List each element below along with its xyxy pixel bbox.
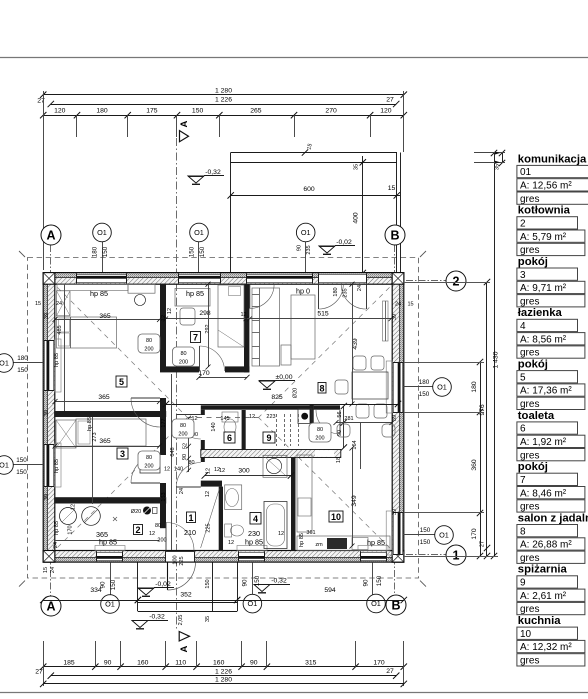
svg-text:7: 7 — [520, 475, 526, 486]
svg-text:9: 9 — [520, 578, 526, 589]
exterior wall top — [43, 273, 404, 278]
room2 gas pipe — [143, 507, 151, 515]
svg-text:O1: O1 — [97, 228, 107, 237]
right window sills — [386, 361, 392, 413]
lazienka sink — [225, 485, 242, 510]
svg-text:salon z jadalnią: salon z jadalnią — [518, 512, 588, 524]
svg-text:hp 85: hp 85 — [299, 533, 305, 547]
grid line A vertical — [50, 245, 52, 596]
svg-text:140: 140 — [174, 467, 183, 473]
salon armchairs — [337, 424, 350, 437]
O1 bottom window1 — [110, 562, 112, 596]
room2 washer — [60, 508, 77, 525]
terrace 600 dim line — [231, 195, 400, 197]
svg-text:175: 175 — [146, 107, 158, 114]
svg-text:235: 235 — [306, 245, 312, 254]
porch 352 dim — [138, 600, 237, 602]
exterior wall bottom — [43, 558, 404, 563]
svg-text:1 280: 1 280 — [215, 87, 232, 94]
room7 chair — [180, 308, 195, 325]
salon sideboard — [291, 295, 315, 359]
svg-text:gres: gres — [520, 553, 539, 564]
svg-text:2,05: 2,05 — [178, 615, 184, 626]
svg-text:-0,32: -0,32 — [149, 614, 165, 621]
svg-text:1 226: 1 226 — [215, 668, 232, 675]
svg-text:200: 200 — [144, 464, 153, 470]
svg-text:8: 8 — [520, 526, 526, 537]
section marker A top — [180, 131, 189, 142]
svg-text:150: 150 — [16, 457, 27, 464]
door room7 — [199, 346, 201, 371]
svg-text:komunikacja: komunikacja — [518, 153, 587, 165]
svg-text:8: 8 — [319, 383, 324, 393]
svg-text:150: 150 — [110, 579, 117, 590]
svg-text:140: 140 — [211, 422, 217, 431]
spizarnia shelves dashed — [276, 414, 278, 446]
exterior wall right — [399, 273, 404, 562]
svg-text:A: 17,36 m²: A: 17,36 m² — [520, 386, 572, 397]
terrace elevation -0.02 — [319, 246, 335, 253]
kitchen counter bottom — [297, 536, 390, 551]
svg-text:170: 170 — [373, 659, 385, 666]
svg-text:B: B — [390, 229, 399, 243]
svg-text:360: 360 — [471, 459, 478, 471]
window O1 bottom wall room2 — [97, 552, 123, 561]
svg-text:223: 223 — [266, 414, 275, 420]
svg-text:80: 80 — [180, 423, 186, 429]
svg-text:80: 80 — [317, 427, 323, 433]
roof corner arrow — [420, 581, 426, 587]
svg-text:180: 180 — [333, 287, 339, 296]
door room3 — [131, 482, 160, 484]
right dim segments line — [480, 362, 482, 556]
bottom dim row 334/352/594 — [43, 600, 138, 602]
porch outline — [137, 562, 139, 611]
wall toaleta/spizarnia top — [201, 405, 314, 409]
window O1 bottom wall kitchen — [360, 552, 386, 561]
svg-text:1 280: 1 280 — [215, 677, 232, 684]
svg-text:12: 12 — [164, 467, 170, 473]
room3 desk — [140, 455, 160, 473]
svg-text:hp 85: hp 85 — [367, 538, 385, 547]
salon dining table — [352, 372, 388, 399]
svg-text:4: 4 — [253, 514, 258, 524]
O1 top window1 — [102, 241, 104, 272]
svg-text:90: 90 — [297, 245, 303, 251]
O1 left window1 — [12, 362, 43, 364]
svg-text:39: 39 — [392, 509, 398, 515]
svg-text:35: 35 — [205, 616, 211, 622]
wall corridor/lazienka jog — [201, 481, 222, 487]
svg-text:150: 150 — [376, 575, 383, 586]
right dim 35 top — [502, 153, 504, 163]
room interior dim lines — [55, 319, 160, 321]
sheet bottom rule — [0, 692, 588, 694]
svg-text:485: 485 — [57, 325, 63, 334]
svg-text:12: 12 — [149, 531, 155, 537]
wall room3 right lower — [160, 483, 166, 497]
roof corner arrow — [19, 581, 25, 587]
corridor texts — [171, 374, 173, 550]
svg-text:225: 225 — [206, 523, 212, 532]
svg-text:90: 90 — [182, 454, 188, 460]
wall spizarnia right — [310, 405, 314, 423]
O1 bottom window3 — [372, 562, 374, 596]
svg-text:515: 515 — [317, 311, 329, 318]
corridor slope line — [201, 489, 220, 548]
svg-text:39: 39 — [392, 415, 398, 421]
top dim 1280 — [43, 94, 404, 96]
svg-text:39: 39 — [44, 410, 50, 416]
svg-text:352: 352 — [180, 592, 192, 599]
svg-text:177: 177 — [161, 418, 167, 427]
svg-text:Ø20: Ø20 — [131, 509, 141, 515]
svg-text:1: 1 — [453, 549, 460, 563]
door salon corridor — [249, 284, 251, 308]
terrace left edge — [230, 153, 232, 274]
corridor door dim chain — [188, 418, 190, 472]
svg-text:gres: gres — [520, 450, 539, 461]
svg-text:300: 300 — [238, 468, 250, 475]
kitchen texts — [336, 422, 392, 424]
top dim 1226 — [51, 104, 396, 106]
svg-text:160: 160 — [137, 659, 149, 666]
svg-text:210: 210 — [184, 528, 196, 537]
wall room7 bottom — [160, 366, 199, 372]
roof outline dashed — [28, 258, 419, 579]
svg-text:hp 85: hp 85 — [54, 353, 60, 367]
svg-text:80: 80 — [146, 455, 152, 461]
svg-text:2: 2 — [135, 525, 140, 535]
svg-text:01: 01 — [520, 167, 532, 178]
svg-text:120: 120 — [380, 107, 392, 114]
lazienka toilet — [225, 524, 232, 537]
svg-text:A: A — [179, 120, 190, 127]
svg-text:12: 12 — [214, 467, 220, 473]
svg-text:A: 8,46 m²: A: 8,46 m² — [520, 488, 567, 499]
kitchen number box — [329, 511, 343, 522]
svg-text:180: 180 — [419, 379, 430, 386]
svg-text:200: 200 — [179, 360, 188, 366]
lazienka shower — [263, 455, 287, 477]
room3 wardrobe — [56, 420, 76, 448]
svg-text:170: 170 — [471, 528, 478, 540]
roof ridge dashed — [188, 417, 259, 419]
svg-text:150: 150 — [102, 246, 109, 257]
svg-text:A: A — [179, 645, 190, 652]
svg-text:gres: gres — [520, 656, 539, 667]
lazienka bathtub — [264, 502, 287, 549]
svg-text:2: 2 — [453, 275, 460, 289]
svg-text:150: 150 — [205, 579, 211, 588]
svg-text:gres: gres — [520, 399, 539, 410]
svg-text:594: 594 — [324, 587, 336, 594]
svg-text:A: A — [46, 229, 55, 243]
window O1 top wall room5 — [77, 274, 127, 283]
toaleta wc — [222, 412, 238, 422]
svg-text:hp 85: hp 85 — [54, 521, 60, 535]
salon number box — [318, 383, 326, 394]
room5 wardrobe — [57, 291, 71, 316]
svg-text:1: 1 — [188, 513, 193, 523]
svg-text:281: 281 — [344, 416, 353, 422]
roof corner arrow — [420, 251, 426, 257]
svg-text:80: 80 — [146, 338, 152, 344]
left window sills — [55, 339, 61, 392]
svg-text:825: 825 — [271, 394, 283, 401]
room7 desk — [175, 288, 210, 306]
komunikacja number box — [187, 512, 196, 523]
svg-text:27: 27 — [35, 669, 43, 676]
svg-text:gres: gres — [520, 348, 539, 359]
svg-text:315: 315 — [305, 659, 317, 666]
svg-text:27: 27 — [386, 668, 394, 675]
hip roof diagonal BR — [259, 418, 404, 562]
svg-text:A: 1,92 m²: A: 1,92 m² — [520, 437, 567, 448]
svg-text:150: 150 — [420, 527, 431, 534]
room7 number box — [191, 332, 201, 343]
svg-text:1 226: 1 226 — [215, 97, 232, 104]
svg-text:kotłownia: kotłownia — [518, 205, 571, 217]
dim 825 corridor+salon — [166, 404, 398, 406]
svg-text:kuchnia: kuchnia — [518, 615, 561, 627]
svg-text:150: 150 — [16, 469, 27, 476]
svg-text:150: 150 — [419, 391, 430, 398]
svg-text:365: 365 — [99, 438, 111, 445]
svg-text:80: 80 — [188, 460, 194, 466]
grid circle A top — [41, 225, 61, 245]
door room5 — [131, 397, 160, 399]
svg-text:12: 12 — [228, 540, 234, 546]
right extension lines — [404, 282, 490, 284]
svg-text:A: 8,56 m²: A: 8,56 m² — [520, 334, 567, 345]
svg-text:6: 6 — [520, 424, 526, 435]
svg-text:łazienka: łazienka — [518, 307, 563, 319]
svg-text:150: 150 — [420, 539, 431, 546]
window O1 left wall room5 — [44, 340, 53, 391]
svg-text:180: 180 — [92, 246, 99, 257]
door room2 — [165, 523, 167, 551]
room5 desk — [128, 284, 155, 293]
grid circle 1 right — [446, 545, 466, 565]
svg-text:-0,32: -0,32 — [271, 578, 287, 585]
svg-text:-0,32: -0,32 — [205, 169, 221, 176]
svg-text:A: 12,32 m²: A: 12,32 m² — [520, 642, 572, 653]
svg-text:12: 12 — [240, 312, 246, 318]
svg-text:160: 160 — [213, 659, 225, 666]
svg-text:365: 365 — [98, 394, 110, 401]
right dim 1430 — [494, 153, 496, 556]
bottom dim 1226 — [51, 675, 396, 677]
svg-text:gres: gres — [520, 604, 539, 615]
svg-text:O1: O1 — [0, 461, 9, 470]
bottom dim 1280 — [43, 683, 404, 685]
svg-text:10: 10 — [520, 629, 532, 640]
terrace right wall outer — [400, 153, 402, 274]
kitchen counter left — [297, 455, 312, 532]
svg-text:O1: O1 — [0, 359, 9, 368]
svg-text:O1: O1 — [439, 531, 449, 540]
porch step line — [138, 602, 237, 604]
svg-text:292: 292 — [205, 324, 211, 333]
svg-text:90: 90 — [337, 430, 343, 436]
salon sofa L piece — [281, 345, 291, 365]
wall room7 right — [244, 284, 249, 373]
svg-text:265: 265 — [250, 107, 262, 114]
svg-text:15: 15 — [407, 302, 413, 308]
svg-text:200: 200 — [315, 436, 324, 442]
room5 bed — [57, 317, 117, 348]
svg-text:10: 10 — [331, 512, 341, 522]
svg-text:18: 18 — [336, 457, 342, 463]
svg-text:24: 24 — [56, 301, 62, 307]
svg-text:15: 15 — [388, 185, 396, 192]
right dim leader arrows — [474, 152, 505, 154]
svg-text:6: 6 — [227, 433, 232, 443]
spizarnia number box — [263, 432, 275, 443]
svg-text:349: 349 — [351, 495, 358, 507]
wall room7 bottom right piece — [225, 366, 249, 372]
svg-text:24: 24 — [53, 542, 59, 548]
svg-text:150: 150 — [189, 246, 196, 257]
svg-text:5: 5 — [119, 377, 124, 387]
grid circle B bottom — [386, 595, 406, 615]
svg-text:hp 85: hp 85 — [186, 289, 204, 298]
svg-text:110: 110 — [175, 659, 186, 666]
svg-text:180: 180 — [471, 381, 478, 393]
grid circle A bottom — [41, 596, 61, 616]
svg-text:24: 24 — [357, 285, 363, 291]
room3 bed — [76, 419, 146, 446]
svg-text:90: 90 — [104, 659, 112, 666]
svg-text:80: 80 — [155, 523, 161, 529]
wall room5/room3 horizontal — [54, 411, 166, 417]
room2 number box — [134, 525, 143, 535]
svg-text:365: 365 — [99, 313, 111, 320]
window O1 right wall kitchen — [393, 512, 402, 554]
svg-text:hp 0: hp 0 — [296, 287, 310, 296]
wall lazienka left — [219, 487, 223, 551]
salon elevation +0.00 — [259, 381, 275, 388]
kitchen column dot — [301, 413, 308, 420]
kitchen fridge — [352, 538, 368, 550]
svg-text:439: 439 — [352, 338, 359, 350]
wall lazienka/kitchen vertical — [291, 458, 296, 551]
section line A-A vertical — [176, 138, 178, 630]
window O1 right wall salon — [393, 362, 402, 412]
bottom window sills — [95, 546, 125, 551]
corner boxes with X — [43, 273, 55, 285]
O1 top window3 terrace — [305, 241, 307, 272]
svg-text:185: 185 — [63, 659, 75, 666]
svg-text:15: 15 — [35, 301, 41, 307]
svg-text:hp 85: hp 85 — [90, 289, 108, 298]
wall room3/room2 horizontal — [54, 497, 166, 503]
svg-text:90: 90 — [250, 659, 258, 666]
svg-text:A: 12,56 m²: A: 12,56 m² — [520, 181, 572, 192]
svg-text:90: 90 — [363, 579, 370, 587]
svg-text:24: 24 — [395, 302, 401, 308]
svg-text:400: 400 — [353, 212, 360, 224]
svg-text:O1: O1 — [437, 383, 447, 392]
svg-text:Ø20: Ø20 — [293, 388, 299, 398]
svg-text:200: 200 — [178, 432, 187, 438]
O1 left window2 — [12, 464, 43, 466]
door kitchen — [339, 410, 341, 434]
exterior wall left — [43, 273, 48, 562]
svg-text:100: 100 — [173, 555, 179, 564]
lazienka number box — [250, 513, 261, 525]
svg-text:90: 90 — [242, 579, 249, 587]
svg-text:12: 12 — [249, 414, 255, 420]
O1 right window1 — [403, 386, 434, 388]
room3 number box — [117, 448, 128, 459]
svg-text:A: 2,61 m²: A: 2,61 m² — [520, 591, 567, 602]
svg-text:39: 39 — [44, 313, 50, 319]
svg-text:12: 12 — [205, 491, 211, 497]
svg-text:80: 80 — [180, 351, 186, 357]
svg-text:35: 35 — [354, 164, 360, 170]
svg-text:150: 150 — [17, 367, 28, 374]
terrace elevation -0.32 — [188, 176, 204, 183]
O1 right window2 — [403, 534, 436, 536]
svg-text:hp 85: hp 85 — [99, 538, 117, 547]
svg-text:273: 273 — [92, 432, 98, 441]
svg-text:27: 27 — [386, 97, 394, 104]
svg-text:56: 56 — [337, 411, 343, 417]
svg-text:170: 170 — [68, 525, 74, 534]
terrace canopy edge — [231, 152, 397, 154]
grid line 1 horizontal — [406, 554, 446, 556]
svg-text:pokój: pokój — [518, 461, 548, 473]
svg-text:200: 200 — [144, 347, 153, 353]
svg-text:gres: gres — [520, 502, 539, 513]
svg-text:hp 85: hp 85 — [245, 538, 263, 547]
window O1 left wall room3 — [44, 444, 53, 486]
wall toaleta/spizarnia divider — [242, 410, 246, 450]
svg-text:180: 180 — [17, 355, 28, 362]
grid circle 2 right — [446, 271, 466, 291]
svg-text:hp 85: hp 85 — [87, 417, 93, 431]
svg-text:±0,00: ±0,00 — [276, 374, 293, 381]
porch elevation -0.32 — [132, 621, 148, 628]
svg-text:235: 235 — [343, 288, 349, 297]
svg-text:145: 145 — [220, 416, 229, 422]
svg-text:150: 150 — [192, 107, 204, 114]
terrace double door opening — [319, 274, 367, 283]
svg-text:12: 12 — [167, 308, 173, 314]
svg-text:600: 600 — [303, 186, 315, 193]
svg-text:3: 3 — [520, 270, 526, 281]
svg-text:zm: zm — [315, 542, 323, 548]
entrance door opening — [166, 551, 195, 561]
svg-text:334: 334 — [90, 587, 102, 594]
svg-text:24: 24 — [50, 567, 56, 573]
svg-text:12: 12 — [71, 504, 77, 510]
svg-text:A: 9,71 m²: A: 9,71 m² — [520, 283, 567, 294]
toaleta number box — [224, 432, 235, 443]
window O1 bottom wall lazienka — [239, 552, 265, 561]
svg-text:9: 9 — [266, 433, 271, 443]
svg-text:O1: O1 — [194, 228, 204, 237]
svg-text:163: 163 — [161, 492, 167, 501]
svg-text:-0,02: -0,02 — [336, 239, 352, 246]
svg-text:12: 12 — [278, 531, 284, 537]
svg-text:spiżarnia: spiżarnia — [518, 564, 568, 576]
roof corner arrow — [19, 251, 25, 257]
porch elevation -0.02 — [138, 588, 154, 595]
salon chairs — [335, 380, 348, 394]
